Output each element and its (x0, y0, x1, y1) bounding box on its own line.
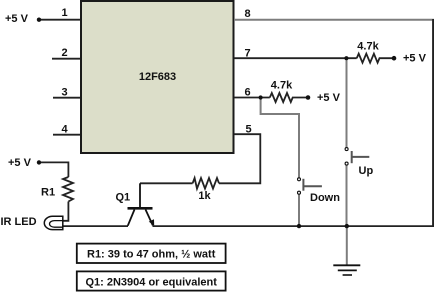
svg-text:1k: 1k (198, 190, 211, 202)
svg-text:1: 1 (61, 7, 67, 19)
svg-text:Q1: 2N3904 or equivalent: Q1: 2N3904 or equivalent (85, 276, 217, 288)
svg-text:3: 3 (61, 87, 67, 99)
svg-text:4.7k: 4.7k (357, 41, 379, 53)
svg-text:+5 V: +5 V (8, 157, 32, 169)
svg-text:8: 8 (244, 8, 250, 20)
svg-text:4.7k: 4.7k (271, 80, 293, 92)
svg-text:IR LED: IR LED (1, 216, 37, 228)
svg-text:Down: Down (310, 192, 340, 204)
svg-text:2: 2 (61, 47, 67, 59)
svg-text:+5 V: +5 V (317, 92, 341, 104)
svg-text:+5 V: +5 V (5, 13, 29, 25)
svg-text:4: 4 (61, 124, 68, 136)
svg-text:Q1: Q1 (116, 192, 131, 204)
svg-text:12F683: 12F683 (139, 71, 176, 83)
svg-text:R1: R1 (41, 187, 55, 199)
svg-text:R1: 39 to 47 ohm, ½ watt: R1: 39 to 47 ohm, ½ watt (87, 249, 216, 261)
svg-text:+5 V: +5 V (403, 53, 427, 65)
svg-text:Up: Up (359, 165, 374, 177)
